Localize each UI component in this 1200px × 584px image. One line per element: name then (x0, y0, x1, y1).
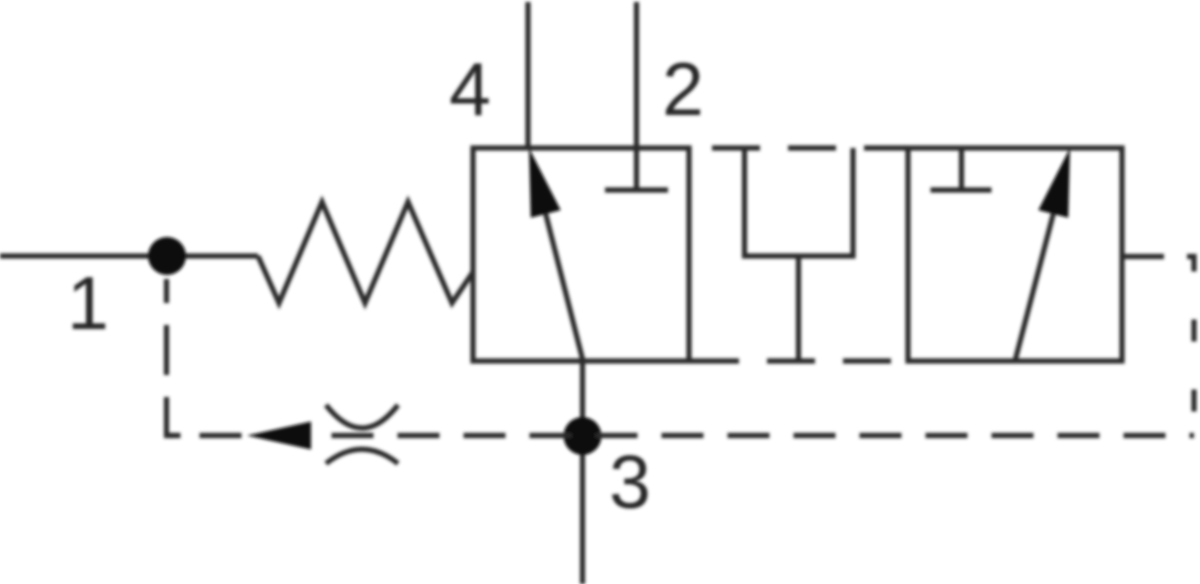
wire: input line port 1 (0, 253, 258, 258)
dashed return line right side (1164, 257, 1194, 436)
arrow flow path position B shaft (1015, 214, 1053, 361)
blocked port 3 stem (transition) (796, 256, 801, 361)
pilot port line 4 (525, 2, 530, 148)
plug bar port 2 (position A blocked) (605, 187, 668, 192)
node 1 junction (148, 237, 186, 275)
port line 2 (634, 2, 639, 190)
arrow flow path position B head (1038, 148, 1070, 218)
svg-text:1: 1 (67, 261, 109, 345)
U connector ports 4-2 (transition) (745, 148, 854, 256)
svg-text:4: 4 (449, 47, 491, 131)
pilot flow arrowhead (247, 422, 311, 450)
transition position top dashed edge (689, 145, 908, 150)
arrow flow path position A head (529, 148, 561, 218)
pilot dashed line horizontal to far right corner (167, 433, 1195, 438)
transition position bottom dashed edge (689, 358, 908, 363)
valve box position B (908, 148, 1122, 361)
orifice restrictor top arc (326, 405, 398, 428)
plug stem port 4 (position B) (959, 148, 964, 190)
arrow flow path position A shaft (546, 214, 583, 361)
svg-text:2: 2 (662, 47, 704, 131)
node 3 junction (564, 417, 602, 455)
svg-text:3: 3 (609, 440, 651, 524)
orifice restrictor bottom arc (326, 449, 398, 463)
pilot dashed line vertical below node 1 (167, 279, 181, 436)
wire port 3 vertical (580, 361, 585, 584)
plug bar port 4 (position B) (931, 187, 992, 192)
spring (258, 202, 473, 303)
output wire port 2 side (1122, 254, 1164, 259)
valve box position A (473, 148, 689, 361)
